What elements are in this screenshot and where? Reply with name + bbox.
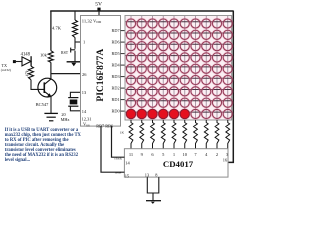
note text block — [5, 128, 82, 163]
svg-text:RD1: RD1 — [111, 97, 119, 102]
wire RD6 stub — [121, 41, 127, 43]
svg-text:10k: 10k — [40, 53, 48, 58]
svg-text:RD3: RD3 — [111, 74, 119, 79]
resistor column 1 1K — [129, 120, 133, 149]
svg-text:5V: 5V — [95, 2, 102, 8]
matrix column wires — [131, 16, 228, 120]
wire CD4017 pins 13,8 to ground — [147, 177, 159, 193]
LED row RD2 y=80.05 — [126, 75, 135, 84]
wire RX line to PIC pin26 — [51, 73, 81, 75]
svg-text:4.7K: 4.7K — [52, 26, 62, 31]
LED row RD5 y=46.12 — [126, 42, 135, 51]
svg-text:RD7: RD7 — [111, 28, 120, 33]
svg-text:BC547: BC547 — [36, 102, 50, 107]
svg-text:RD5: RD5 — [111, 51, 119, 56]
wire 47k to base — [31, 80, 44, 90]
LED circles grid — [126, 19, 232, 119]
wire RD1 stub — [121, 99, 127, 101]
svg-text:clock: clock — [114, 156, 122, 160]
svg-text:RD0: RD0 — [111, 109, 119, 114]
resistor column 3 1K — [151, 120, 155, 149]
wire 4.7K to MCLR node — [74, 38, 76, 49]
wire RD4 stub — [121, 64, 127, 66]
resistor column 8 1K — [204, 120, 208, 149]
resistor column 5 1K — [172, 120, 176, 149]
IC U1 PIC16F877A microcontroller — [81, 16, 121, 127]
svg-text:CD4017: CD4017 — [163, 159, 194, 169]
resistor column 9 1K — [215, 120, 219, 149]
svg-text:10: 10 — [183, 152, 188, 157]
LED row RD7 y=23.5 — [126, 19, 135, 28]
wire emitter to ground — [50, 97, 52, 114]
svg-text:MHz: MHz — [61, 117, 70, 122]
svg-text:level signal...: level signal... — [5, 158, 30, 163]
wire 5V to PIC VDD — [98, 11, 100, 16]
svg-text:1: 1 — [173, 152, 175, 157]
node TX input — [13, 60, 16, 63]
wire RB6 to clock pin14 — [112, 126, 125, 157]
LED matrix box — [125, 16, 232, 121]
svg-text:RD2: RD2 — [111, 86, 119, 91]
svg-text:1: 1 — [83, 39, 85, 44]
wire 5V rail — [50, 10, 233, 12]
wire RD3 stub — [121, 76, 127, 78]
PIC right pin labels RD7-RD0 — [111, 28, 120, 114]
ground below RST — [67, 61, 82, 63]
matrix row wires — [126, 22, 232, 112]
LED row RD3 y=68.74 — [126, 64, 135, 73]
resistor R 4.7K — [73, 20, 78, 38]
switch RST — [70, 48, 72, 53]
wire 10k to collector — [50, 62, 52, 79]
resistor column 2 1K — [140, 120, 144, 149]
resistor column 10 1K — [226, 120, 230, 149]
svg-text:1K: 1K — [120, 131, 125, 135]
resistor column 7 1K — [194, 120, 198, 149]
wire RD5 stub — [121, 53, 127, 55]
wire right drop to CD4017 pin16 — [228, 11, 233, 163]
wire RST to ground — [74, 51, 76, 62]
svg-text:11: 11 — [129, 152, 133, 157]
svg-text:RD6: RD6 — [111, 40, 120, 45]
wire TX to diode — [16, 61, 22, 63]
svg-text:2: 2 — [216, 152, 218, 157]
crystal X1 20MHz — [70, 92, 80, 97]
LED row bottom y=113.98 — [126, 109, 135, 118]
LED row RD4 y=57.43 — [126, 53, 135, 62]
wire RD2 stub — [121, 87, 127, 89]
CD4017 top pin numbers — [129, 152, 229, 157]
svg-text:RST: RST — [61, 51, 69, 55]
svg-text:47k: 47k — [24, 69, 29, 76]
wire RD7 stub — [121, 30, 127, 32]
svg-text:(rs232): (rs232) — [1, 68, 12, 72]
resistor R 10k — [48, 51, 53, 63]
ground below emitter — [44, 112, 58, 114]
resistor column 4 1K — [161, 120, 165, 149]
ground below CD4017 — [146, 200, 161, 202]
LED row RD0 y=102.67 — [126, 98, 135, 107]
svg-text:reset: reset — [115, 171, 122, 175]
wire RB7 to reset pin15 — [101, 126, 124, 172]
transistor Q BC547 — [38, 78, 57, 97]
LED row RD1 y=91.36 — [126, 87, 135, 96]
wire rail to 10k — [50, 11, 52, 51]
node 5V junction dot — [97, 8, 100, 11]
wire RD0 stub — [121, 110, 127, 112]
resistor column 6 1K — [183, 120, 187, 149]
wire rail to 4.7K — [74, 11, 76, 20]
IC U2 CD4017 box — [124, 149, 228, 177]
svg-text:RD4: RD4 — [111, 63, 120, 68]
svg-text:PIC16F877A: PIC16F877A — [96, 49, 106, 102]
svg-text:VSS: VSS — [83, 122, 90, 128]
LED row RD6 y=34.81 — [126, 30, 135, 39]
resistor R 47k — [29, 66, 34, 80]
wire MCLR node to PIC pin1 — [75, 41, 81, 43]
